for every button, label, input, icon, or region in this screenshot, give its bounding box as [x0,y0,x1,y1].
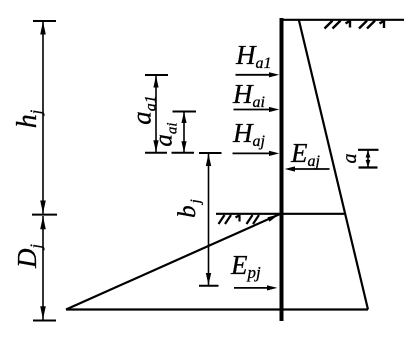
svg-text:Eaj: Eaj [290,138,321,170]
svg-text:aai: aai [151,122,181,146]
ground line top right [280,19,405,21]
dredge hatching [219,215,260,224]
a dimension (right) [358,150,379,168]
H_aj force arrow [233,152,272,154]
bottom base line [66,308,368,310]
E_pj force arrow [234,287,269,289]
active pressure hypotenuse [299,21,368,310]
dredge line [216,213,345,215]
svg-text:Haj: Haj [232,118,266,150]
svg-text:Ha1: Ha1 [235,40,272,72]
h_j dimension line [32,21,57,215]
H_a1 force arrow [236,74,272,76]
svg-text:bj: bj [174,198,204,218]
svg-text:Hai: Hai [232,79,265,111]
svg-text:hj: hj [12,109,45,128]
svg-text:Dj: Dj [12,243,45,269]
ground hatching top [325,21,385,29]
passive pressure hypotenuse [66,214,280,310]
wall [280,18,284,321]
a_ai dimension [172,112,197,153]
E_aj force arrow [293,168,330,170]
b_j dimension [199,153,222,286]
passive hypotenuse arrowhead [268,214,280,221]
D_j dimension line [33,216,56,321]
svg-text:Epj: Epj [230,250,261,282]
H_ai force arrow [234,109,272,111]
a_a1 dimension [145,75,168,153]
svg-text:a: a [339,154,361,164]
svg-text:aa1: aa1 [127,95,160,125]
